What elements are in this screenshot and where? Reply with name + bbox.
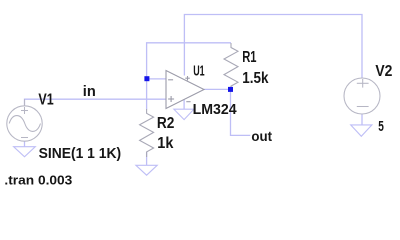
svg-text:V1: V1 bbox=[38, 91, 54, 108]
svg-text:.tran 0.003: .tran 0.003 bbox=[4, 173, 72, 188]
junction: output node bbox=[228, 87, 233, 92]
wire: output junction down and right to out bbox=[231, 89, 251, 135]
wire: junction to inverting input bbox=[147, 78, 166, 80]
junction: inverting input node bbox=[144, 76, 149, 81]
wire: R2 bottom to ground bbox=[146, 152, 148, 165]
wire: feedback node vertical (R1/R2 to inverting input) bbox=[147, 43, 231, 110]
svg-text:LM324: LM324 bbox=[193, 102, 238, 118]
wire: V2 bottom to ground bbox=[361, 114, 363, 125]
svg-text:out: out bbox=[251, 128, 272, 144]
wire: op-amp output to junction bbox=[204, 88, 231, 90]
wire: V1 top to "in" net horizontal bbox=[25, 99, 167, 105]
svg-text:5: 5 bbox=[378, 119, 384, 135]
svg-text:R1: R1 bbox=[242, 49, 257, 66]
svg-text:V2: V2 bbox=[375, 63, 392, 80]
svg-text:1k: 1k bbox=[157, 135, 174, 152]
wire: V1 bottom to ground bbox=[24, 141, 26, 147]
svg-text:U1: U1 bbox=[193, 62, 205, 79]
voltage source V2 bbox=[344, 78, 380, 114]
wire: V+ rail from op-amp up and across to V2 bbox=[184, 15, 362, 79]
voltage source V1 (sine) bbox=[7, 99, 42, 141]
svg-text:SINE(1 1 1K): SINE(1 1 1K) bbox=[39, 146, 122, 162]
resistor R1 bbox=[224, 43, 238, 89]
ground under op-amp V- bbox=[174, 109, 194, 119]
svg-text:R2: R2 bbox=[157, 115, 175, 132]
svg-text:1.5k: 1.5k bbox=[242, 70, 269, 87]
ground under V2 bbox=[351, 125, 372, 136]
svg-text:in: in bbox=[83, 84, 96, 100]
resistor R2 bbox=[140, 109, 154, 157]
op-amp U1 bbox=[166, 71, 204, 109]
ground under R2 bbox=[136, 165, 157, 175]
wire: op-amp V- pin to ground bbox=[183, 100, 185, 110]
ground under V1 bbox=[14, 147, 36, 157]
